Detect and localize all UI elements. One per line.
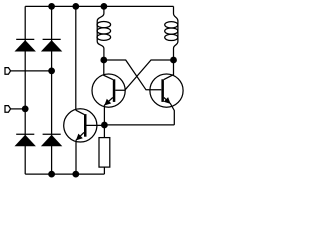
- transistor Q1: [64, 109, 105, 174]
- wire bottom rail: [25, 173, 104, 175]
- diode D1: [15, 39, 36, 51]
- wire terminal P1 to node: [11, 70, 52, 72]
- node dot top rail / inductor L1: [101, 3, 108, 10]
- wire terminal P2 to node: [11, 108, 26, 110]
- node dot collector L2/Q3: [170, 57, 177, 64]
- node dot bottom rail / Q1 emitter: [72, 171, 79, 178]
- node dot P1/column B: [48, 68, 55, 75]
- resistor R1: [99, 125, 110, 174]
- wire left column (net A): [24, 6, 26, 174]
- diode D4: [41, 134, 62, 146]
- wire cross-couple B (L2 node to Q2 base): [115, 60, 173, 90]
- wire top rail: [25, 5, 173, 7]
- node dot bottom rail / column B: [48, 171, 55, 178]
- node dot P2/column A: [22, 106, 29, 113]
- wire emitter rail: [104, 124, 174, 126]
- diode D3: [15, 134, 36, 146]
- wire column C collector feed: [75, 6, 77, 110]
- transistor Q2: [92, 60, 125, 125]
- diode D2: [41, 39, 62, 51]
- wire second column (net B): [51, 6, 53, 174]
- transistor Q3: [150, 60, 183, 125]
- inductor L1: [97, 6, 111, 60]
- terminal P1: [5, 68, 11, 75]
- node dot top rail / column B: [48, 3, 55, 10]
- terminal P2: [5, 106, 11, 113]
- node dot emitter rail: [101, 122, 108, 129]
- node dot top rail / column C: [72, 3, 79, 10]
- wire cross-couple A (L1 node to Q3 base): [104, 60, 162, 90]
- inductor L2: [165, 6, 178, 60]
- node dot collector L1/Q2: [100, 57, 107, 64]
